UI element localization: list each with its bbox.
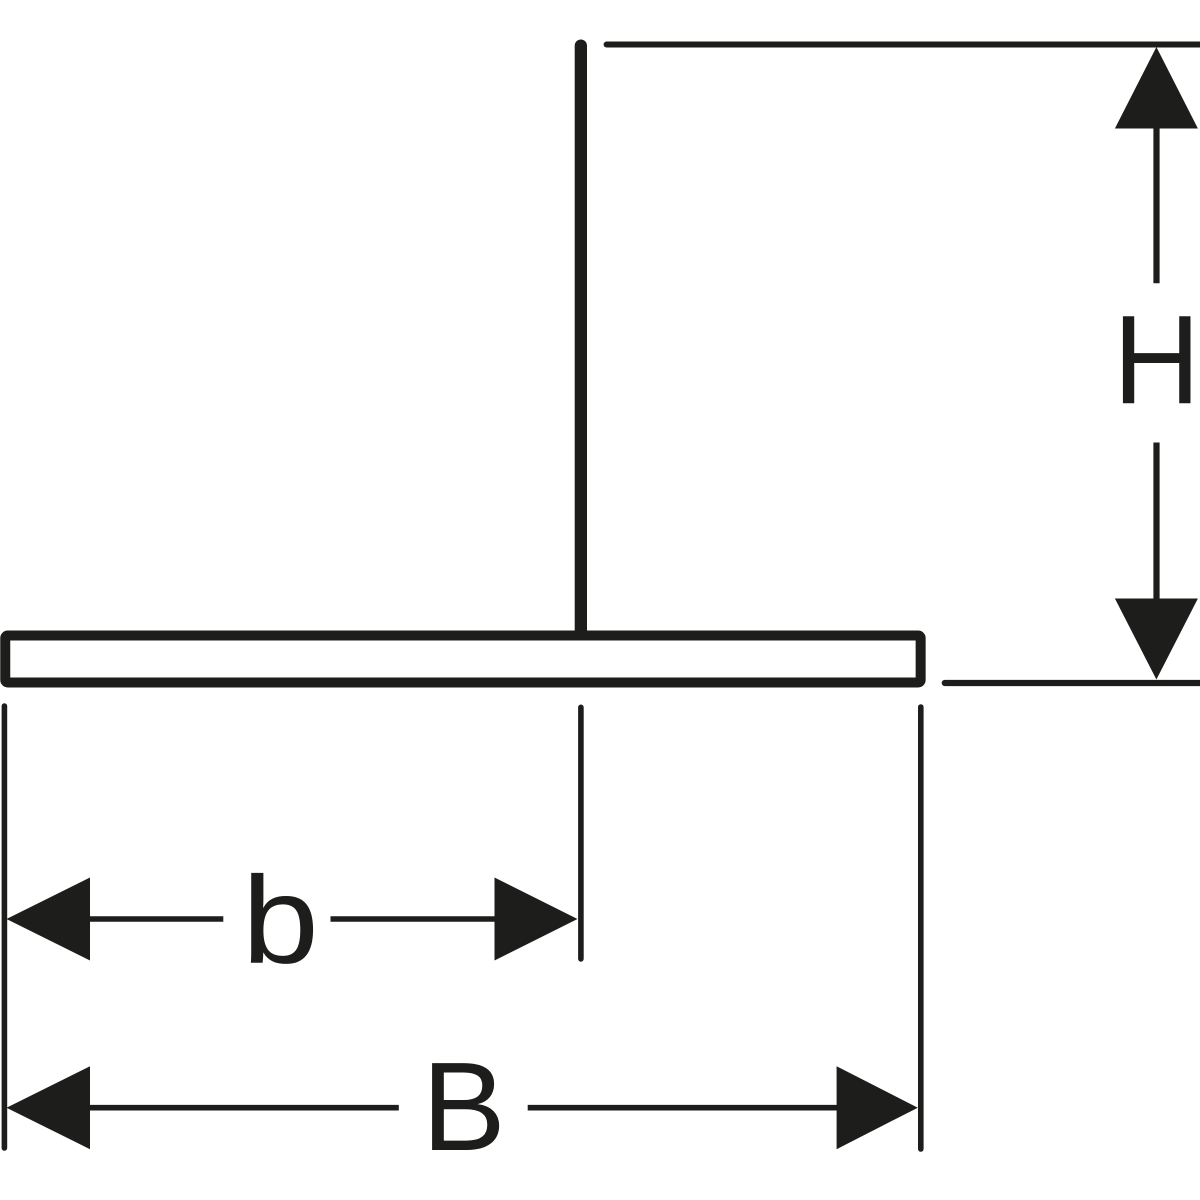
dimension b: left line segment <box>89 916 223 922</box>
svg-text:b: b <box>242 850 319 989</box>
extension line right below plate (right end of B) <box>918 707 924 1149</box>
dimension H: upper arrowhead <box>1115 47 1198 129</box>
dimension H: lower line segment <box>1153 443 1159 600</box>
dimension H: lower arrowhead <box>1115 599 1198 680</box>
extension line middle below plate (right end of b) <box>578 707 584 959</box>
svg-text:H: H <box>1113 290 1200 431</box>
svg-text:B: B <box>422 1036 506 1177</box>
dimension B: left arrowhead <box>7 1066 91 1149</box>
dimension b: right line segment <box>331 916 496 922</box>
dimension B: right arrowhead <box>837 1066 918 1149</box>
wall profile (vertical web of T-profile) <box>575 46 587 633</box>
dimension B: left line segment <box>89 1105 399 1111</box>
dimension H: upper line segment <box>1153 128 1159 283</box>
dimension b: right arrowhead <box>495 878 578 961</box>
dimension B: right line segment <box>528 1105 838 1111</box>
extension line right of plate bottom (to H dimension) <box>945 680 1200 686</box>
base plate (flange of T-profile) <box>5 636 920 683</box>
extension line left below plate (for b and B) <box>2 706 8 1148</box>
extension line top (from wall top to H dimension) <box>607 42 1200 48</box>
dimension b: left arrowhead <box>7 878 91 961</box>
